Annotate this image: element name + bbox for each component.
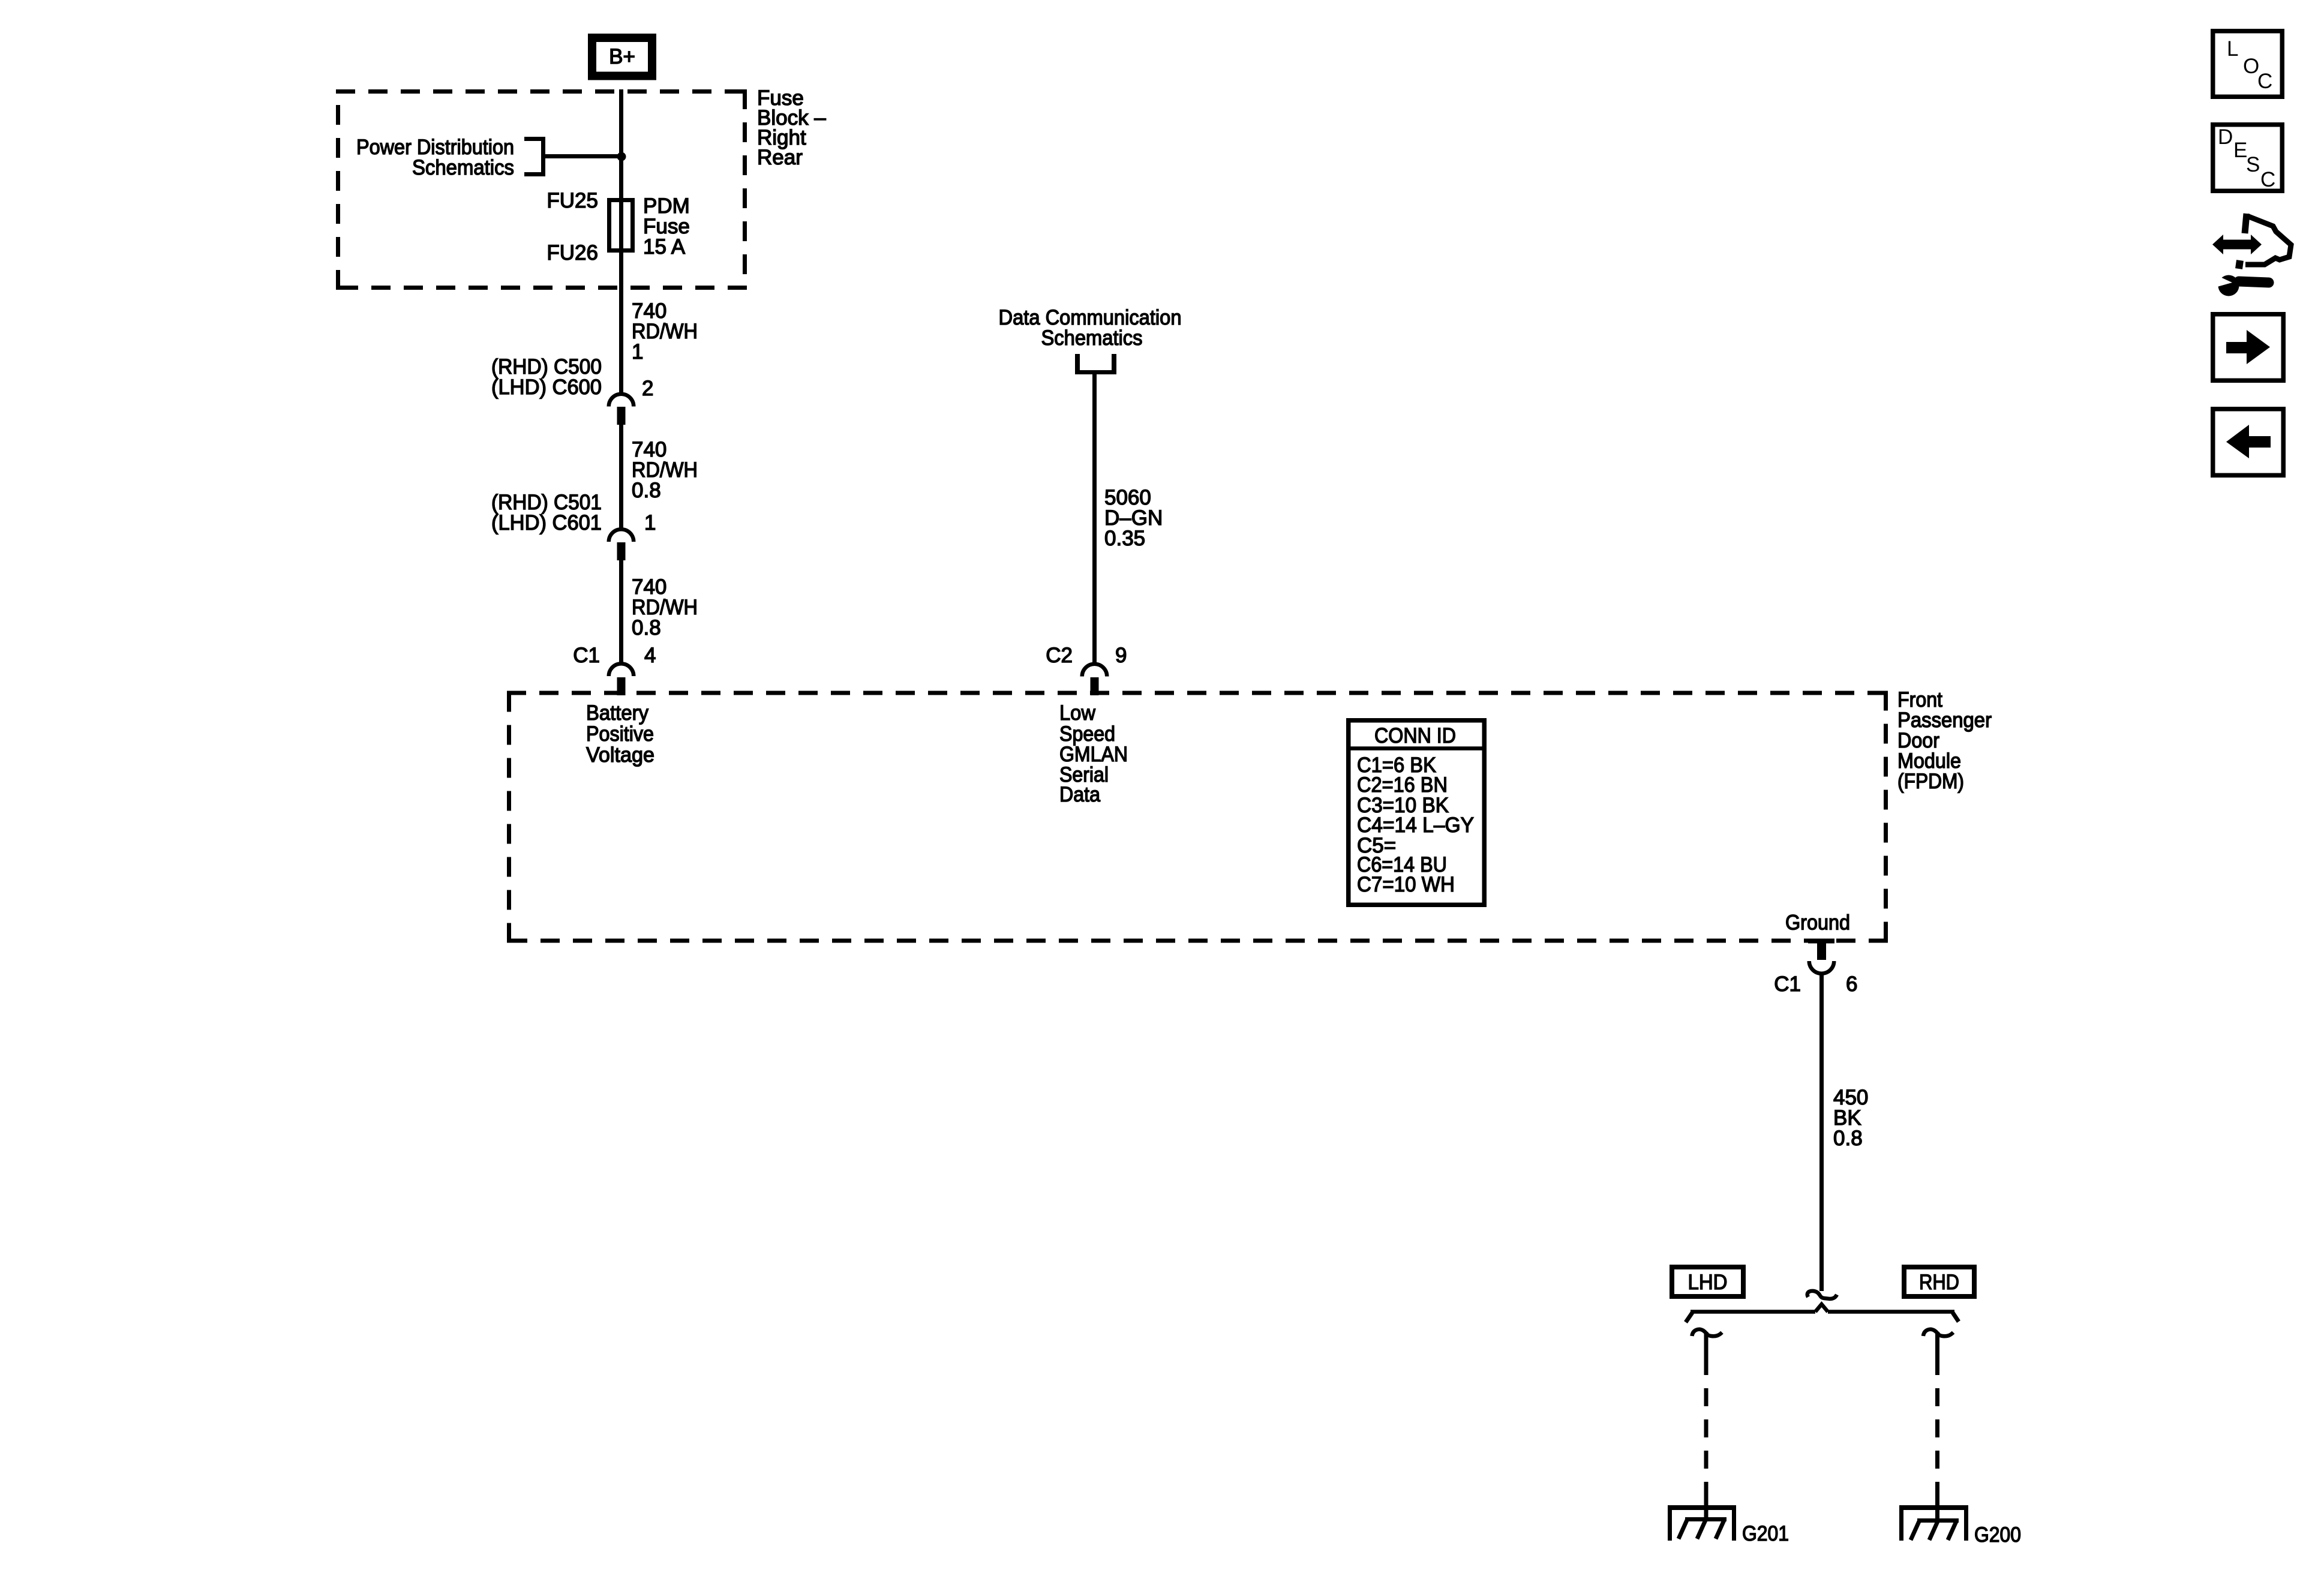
option box RHD	[1904, 1267, 1974, 1296]
svg-text:CONN ID: CONN ID	[1374, 724, 1456, 748]
svg-text:D: D	[2218, 125, 2233, 149]
wire to G201 (dashed)	[1704, 1332, 1709, 1521]
node label Battery Positive Voltage	[586, 701, 654, 767]
label Fuse Block - Right Rear	[757, 86, 826, 169]
svg-text:LHD: LHD	[1688, 1271, 1728, 1294]
svg-text:Data: Data	[1059, 783, 1100, 806]
svg-text:FU25: FU25	[547, 189, 598, 212]
label Front Passenger Door Module (FPDM)	[1897, 688, 1992, 793]
svg-text:Ground: Ground	[1785, 911, 1850, 935]
svg-text:Battery: Battery	[586, 701, 648, 725]
svg-text:1: 1	[632, 340, 643, 364]
connector FPDM C2 pin 9	[1082, 664, 1107, 695]
option hook LHD branch	[1692, 1329, 1722, 1336]
option box LHD	[1672, 1267, 1743, 1296]
svg-text:Positive: Positive	[586, 722, 654, 746]
wire label 5060 D-GN 0.35	[1104, 486, 1163, 550]
wire label 740 RD/WH 0.8	[632, 575, 698, 640]
svg-text:C2: C2	[1046, 644, 1073, 667]
wire from bracket to junction	[545, 154, 621, 158]
wire B+ to fuse and down to FPDM C1 pin 4	[619, 89, 623, 393]
wire label 740 RD/WH 0.8	[632, 438, 698, 502]
FPDM dashed box (Front Passenger Door Module)	[507, 691, 1888, 943]
svg-text:FU26: FU26	[547, 241, 598, 265]
svg-text:C: C	[2257, 70, 2272, 93]
wire to G200 (dashed)	[1935, 1332, 1939, 1521]
svg-text:L: L	[2227, 37, 2238, 61]
svg-text:9: 9	[1115, 644, 1127, 667]
option hook RHD branch	[1923, 1329, 1953, 1336]
label (RHD) C501 / (LHD) C601	[491, 491, 602, 535]
svg-text:B+: B+	[609, 45, 635, 68]
label Data Communication Schematics	[999, 306, 1182, 350]
wire segment 740 RD/WH 0.8 to FPDM	[619, 560, 623, 663]
wire 5060 D-GN 0.35	[1092, 372, 1097, 663]
sidebar icon DESC	[2213, 125, 2283, 191]
svg-text:(LHD) C600: (LHD) C600	[491, 376, 602, 399]
svg-text:(FPDM): (FPDM)	[1897, 770, 1964, 793]
svg-text:Schematics: Schematics	[412, 156, 514, 179]
svg-text:RHD: RHD	[1919, 1271, 1959, 1294]
sidebar icon right arrow	[2213, 314, 2284, 381]
svg-text:Rear: Rear	[757, 146, 803, 169]
svg-text:G201: G201	[1742, 1522, 1789, 1545]
svg-text:0.8: 0.8	[632, 616, 661, 640]
connector C500/C600	[609, 394, 634, 425]
svg-text:C: C	[2260, 168, 2275, 191]
svg-text:4: 4	[644, 644, 656, 667]
option hook at end of wire 450	[1807, 1291, 1837, 1299]
svg-text:(LHD) C601: (LHD) C601	[491, 511, 602, 535]
sidebar icon wrench with double arrow	[2212, 214, 2291, 296]
off-page bracket Data Communication	[1075, 354, 1116, 374]
label (RHD) C500 / (LHD) C600	[491, 355, 602, 399]
power node B+ box	[592, 38, 652, 76]
wire 450 BK 0.8	[1819, 974, 1824, 1291]
svg-text:6: 6	[1846, 972, 1857, 996]
ground G201	[1668, 1505, 1736, 1541]
option brace	[1686, 1304, 1959, 1322]
svg-text:15 A: 15 A	[643, 235, 686, 259]
svg-text:C1: C1	[1774, 972, 1801, 996]
wire label 450 BK 0.8	[1833, 1086, 1868, 1150]
sidebar icon LOC	[2213, 31, 2283, 97]
svg-text:C7=10 WH: C7=10 WH	[1357, 873, 1455, 896]
junction dot on B+ feed	[617, 152, 626, 161]
ground G200	[1899, 1505, 1968, 1541]
svg-text:G200: G200	[1974, 1523, 2021, 1547]
svg-text:0.8: 0.8	[1833, 1127, 1863, 1150]
fuse block dashed box (Fuse Block - Right Rear)	[336, 89, 747, 290]
wire segment 740 RD/WH 0.8	[619, 425, 623, 529]
wire label 740 RD/WH 1	[632, 299, 698, 364]
label Power Distribution Schematics	[356, 136, 514, 179]
svg-text:Schematics: Schematics	[1041, 326, 1143, 350]
svg-text:1: 1	[644, 511, 656, 535]
svg-text:0.35: 0.35	[1104, 527, 1145, 550]
connector FPDM C1 pin 4	[609, 664, 634, 695]
svg-text:2: 2	[642, 377, 653, 400]
connector C501/C601	[609, 529, 634, 560]
svg-text:0.8: 0.8	[632, 479, 661, 502]
svg-text:C1: C1	[573, 644, 600, 667]
svg-text:Low: Low	[1059, 701, 1096, 725]
sidebar icon left arrow	[2213, 409, 2284, 476]
fuse PDM Fuse 15 A (FU25/FU26)	[609, 200, 633, 251]
node label Low Speed GMLAN Serial Data	[1059, 701, 1128, 806]
svg-text:Voltage: Voltage	[586, 743, 654, 767]
svg-text:S: S	[2246, 153, 2260, 176]
connector FPDM C1 pin 6 (ground output)	[1808, 939, 1834, 974]
label PDM Fuse 15 A	[643, 194, 690, 259]
CONN ID table	[1346, 721, 1484, 905]
svg-text:E: E	[2233, 139, 2247, 162]
bracket to Power Distribution Schematics	[524, 137, 545, 176]
